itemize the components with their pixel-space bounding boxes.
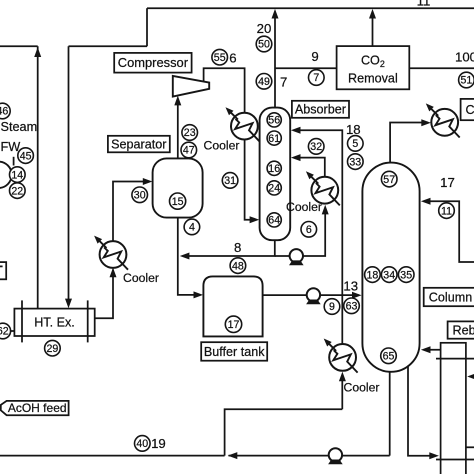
- svg-text:30: 30: [134, 190, 146, 202]
- svg-text:62: 62: [0, 326, 9, 338]
- svg-text:Cooler: Cooler: [123, 271, 159, 285]
- svg-text:17: 17: [228, 319, 240, 331]
- vessel: Distillation column: [362, 163, 419, 372]
- arrowhead right into absorber: [250, 216, 260, 223]
- wire: steam into reboiler right side: [470, 376, 474, 378]
- stream tag circle 14: [9, 167, 25, 183]
- stream tag circle 57: [381, 171, 397, 187]
- stream tag circle 65: [381, 348, 397, 364]
- stream tag circle 29: [45, 340, 61, 356]
- stream tag circle 22: [9, 183, 25, 199]
- arrowhead left into absorber (stream 18): [291, 127, 301, 134]
- stream tag circle 7: [309, 70, 325, 86]
- svg-text:9: 9: [311, 49, 318, 64]
- label box: Compressor: [114, 53, 191, 73]
- svg-text:Removal: Removal: [348, 71, 398, 85]
- heat exchanger: HT. Ex. shell: [14, 309, 94, 336]
- pump P2 (column feed pump): [306, 288, 321, 304]
- svg-text:9: 9: [329, 301, 335, 313]
- svg-text:18: 18: [346, 122, 361, 137]
- svg-text:13: 13: [343, 279, 358, 294]
- stream tag circle 5: [348, 136, 364, 152]
- stream tag circle 23: [182, 125, 198, 141]
- vessel: Separator drum: [153, 158, 203, 217]
- stream tag circle 31: [222, 173, 238, 189]
- svg-text:16: 16: [268, 163, 280, 175]
- wire: reboiler lower tube sheet line: [436, 459, 474, 461]
- wire: riser from HT.Ex to top-left, with up arrow: [37, 46, 39, 308]
- svg-text:Co: Co: [466, 103, 474, 117]
- HT. Ex. left tube sheet: [21, 300, 23, 342]
- arrowhead right into separator: [143, 178, 153, 185]
- stream tag circle 48: [230, 258, 246, 274]
- wire: HT.Ex left stub: [0, 330, 14, 332]
- wire: reflux return from right edge: [425, 201, 474, 262]
- arrowhead left into column from reboiler: [421, 346, 431, 353]
- wire: lean solvent riser (5/33) to absorber top: [294, 130, 343, 344]
- svg-text:17: 17: [440, 175, 455, 190]
- svg-text:40: 40: [136, 438, 148, 450]
- cooler HX5 (recycle cooler): [324, 339, 358, 373]
- svg-text:35: 35: [400, 269, 412, 281]
- wire: absorber overhead riser: [274, 13, 276, 108]
- arrowhead up CO2 vent: [369, 9, 376, 19]
- svg-text:61: 61: [268, 133, 280, 145]
- stream tag circle 50: [256, 36, 272, 52]
- svg-text:32: 32: [310, 141, 322, 153]
- stream tag circle 15: [170, 193, 186, 209]
- svg-text:8: 8: [234, 240, 241, 255]
- arrowhead right into reboiler: [429, 452, 439, 459]
- wire: feed cooler to separator inlet: [113, 182, 150, 242]
- svg-text:15: 15: [172, 196, 184, 208]
- wire: separator bottoms to buffer tank: [178, 218, 201, 295]
- svg-text:22: 22: [11, 185, 23, 197]
- wire: step up at x=147: [146, 8, 148, 46]
- wire: CO2 removal outlet right: [409, 67, 474, 69]
- stream tag circle 16: [267, 161, 281, 175]
- wire: separator overhead to compressor: [177, 100, 179, 159]
- stream tag circle 34: [381, 267, 397, 283]
- stream tag circle 45: [18, 148, 34, 164]
- vessel: Buffer tank: [203, 276, 262, 336]
- svg-text:Cooler: Cooler: [344, 381, 380, 395]
- svg-text:14: 14: [11, 169, 23, 181]
- wire: cooled gas down to absorber bottom inlet: [245, 139, 257, 219]
- svg-text:Buffer tank: Buffer tank: [204, 345, 265, 359]
- svg-text:64: 64: [268, 215, 280, 227]
- arrowhead up into compressor: [174, 96, 181, 106]
- wire: absorber overhead to CO2 removal: [275, 67, 337, 69]
- svg-text:100: 100: [455, 50, 474, 65]
- arrowhead up into feed cooler: [110, 268, 117, 278]
- label box: Absorber: [292, 101, 349, 118]
- wire: recycle run from bottoms junction: [225, 409, 343, 455]
- stream tag circle 40: [135, 436, 151, 452]
- svg-text:48: 48: [232, 260, 244, 272]
- svg-text:33: 33: [349, 156, 361, 168]
- wire: compressor discharge: [204, 68, 245, 113]
- svg-text:50: 50: [258, 39, 270, 51]
- arrowhead left into column (stream 11): [421, 198, 431, 205]
- stream tag circle 9: [324, 299, 340, 315]
- wire: column bottoms run west through pump P3: [229, 455, 390, 457]
- stream tag circle 24: [267, 181, 281, 195]
- cooler HX4 (column overhead cooler): [426, 103, 460, 137]
- wire: bottoms header west exit (stream 40/19): [0, 455, 225, 457]
- arrowhead left into separator bottoms line: [180, 253, 190, 260]
- arrowhead up into top header: [272, 9, 279, 19]
- svg-text:57: 57: [383, 174, 395, 186]
- stream tag circle 32: [308, 139, 324, 155]
- svg-text:6: 6: [306, 224, 312, 236]
- svg-text:23: 23: [184, 127, 196, 139]
- label box: CO2 Removal: [337, 46, 410, 89]
- stream tag circle 64: [267, 213, 281, 227]
- arrowhead left into absorber (stream 32): [291, 154, 301, 161]
- svg-text:11: 11: [417, 0, 431, 9]
- vessel: Absorber column: [260, 108, 291, 241]
- svg-text:6: 6: [229, 51, 236, 66]
- svg-text:31: 31: [224, 175, 236, 187]
- equipment: Reboiler shell: [441, 343, 466, 474]
- svg-text:Column: Column: [429, 291, 472, 305]
- wire: absorber pumparound east through pump P1: [275, 212, 325, 257]
- stream tag circle 33: [348, 154, 364, 170]
- arrowhead right into buffer tank: [194, 291, 204, 298]
- label box: Reboiler (cut at right edge): [448, 321, 474, 338]
- wire: buffer tank outlet to column feed through pump P2: [263, 294, 359, 296]
- stream tag circle 17: [225, 316, 241, 332]
- svg-text:55: 55: [214, 52, 226, 64]
- svg-text:24: 24: [268, 183, 280, 195]
- svg-text:51: 51: [461, 75, 473, 87]
- wire: gas down-comer to HT.Ex: [68, 46, 70, 300]
- svg-text:5: 5: [352, 138, 358, 150]
- pump P1 (absorber pumparound pump): [289, 249, 304, 265]
- stream tag circle 55: [212, 49, 228, 65]
- vessel: steam drum (cut at left edge): [0, 162, 12, 188]
- stream tag circle 49: [256, 74, 272, 90]
- svg-text:29: 29: [47, 343, 59, 355]
- svg-text:20: 20: [257, 21, 272, 36]
- stream tag circle 30: [132, 187, 148, 203]
- arrowhead right into column (stream 13): [352, 292, 362, 299]
- svg-text:19: 19: [151, 436, 166, 451]
- arrowhead right into overhead cooler: [421, 119, 431, 126]
- wire: steam drum nozzle tick: [13, 157, 15, 166]
- wire: recycle up to cooler HX5: [341, 377, 343, 409]
- svg-text:Reboiler: Reboiler: [453, 324, 474, 338]
- wire: top header horizontal y=46: [69, 45, 148, 47]
- wire: column bottoms right leg into reboiler: [408, 367, 436, 456]
- stream tag circle 51: [459, 72, 474, 88]
- wire: column overhead to condenser cooler: [390, 123, 428, 164]
- svg-text:Compressor: Compressor: [118, 55, 189, 70]
- wire: reboiler right stub: [466, 446, 474, 448]
- svg-text:65: 65: [383, 351, 395, 363]
- svg-text:46: 46: [0, 106, 8, 118]
- arrowhead left at bottoms junction: [228, 452, 238, 459]
- svg-text:56: 56: [268, 115, 280, 127]
- wire: top-left exit line: [0, 45, 38, 47]
- svg-text:34: 34: [383, 269, 395, 281]
- arrowhead down into HT.Ex: [65, 299, 72, 309]
- cooler HX3 (separator feed cooler): [94, 236, 128, 270]
- stream tag circle 63: [344, 298, 360, 314]
- svg-text:Steam: Steam: [1, 120, 38, 134]
- svg-text:BFW: BFW: [0, 140, 20, 154]
- stream tag circle 61: [267, 131, 281, 145]
- label fragment box at left edge: [0, 262, 6, 279]
- svg-text:HT. Ex.: HT. Ex.: [34, 316, 75, 330]
- svg-text:7: 7: [280, 74, 287, 89]
- cooler HX1 (compressor aftercooler): [226, 107, 260, 141]
- stream tag circle 62: [0, 323, 11, 339]
- wire: reboiler upper tube sheet line: [436, 358, 474, 360]
- svg-text:4: 4: [189, 222, 195, 234]
- label box: Buffer tank: [201, 342, 267, 361]
- stream tag circle 46: [0, 103, 10, 119]
- arrowhead up into recycle cooler: [339, 372, 346, 382]
- svg-text:47: 47: [183, 145, 195, 157]
- cooler HX2 (absorber pumparound cooler): [306, 171, 340, 205]
- label box: Column: [424, 288, 474, 306]
- svg-text:Cooler: Cooler: [204, 139, 240, 153]
- compressor symbol (trapezoid): [173, 76, 209, 97]
- svg-text:11: 11: [441, 205, 452, 217]
- wire: column bottoms left leg: [389, 369, 391, 456]
- svg-text:7: 7: [313, 72, 319, 84]
- stream tag circle 4: [184, 219, 200, 235]
- svg-text:AcOH feed: AcOH feed: [8, 401, 67, 415]
- pump P3 (column bottoms pump): [328, 448, 343, 464]
- svg-text:63: 63: [346, 301, 358, 313]
- svg-text:Cooler: Cooler: [286, 200, 322, 214]
- wire: absorber bottoms west to junction: [183, 240, 275, 256]
- stream tag circle 47: [181, 142, 197, 158]
- label banner: AcOH feed: [1, 401, 69, 415]
- arrowhead left into reboiler right side: [467, 373, 474, 380]
- stream tag circle 6: [301, 222, 317, 238]
- svg-text:49: 49: [258, 76, 270, 88]
- label box: Separator: [108, 136, 170, 153]
- stream tag circle 18: [365, 267, 381, 283]
- stream tag circle 11: [439, 203, 455, 219]
- stream tag circle 35: [398, 267, 414, 283]
- svg-text:18: 18: [367, 269, 379, 281]
- svg-text:45: 45: [20, 150, 32, 162]
- svg-text:Separator: Separator: [111, 137, 166, 151]
- wire: CO2 removal vent: [372, 13, 374, 47]
- label box: Condenser (cut at right edge): [461, 99, 474, 120]
- svg-text:Absorber: Absorber: [295, 103, 346, 117]
- wire: pumparound cooler to absorber return: [294, 158, 325, 177]
- wire: HT.Ex outlet to feed cooler: [95, 270, 113, 319]
- arrowhead up at top-left corner: [34, 47, 41, 57]
- wire: top header y=8 to right edge: [147, 7, 474, 9]
- stream tag circle 56: [267, 113, 281, 127]
- HT. Ex. right tube sheet: [87, 300, 89, 342]
- arrowhead up into pumparound cooler: [322, 205, 329, 215]
- wire: reboiler vapor return to column: [425, 349, 441, 351]
